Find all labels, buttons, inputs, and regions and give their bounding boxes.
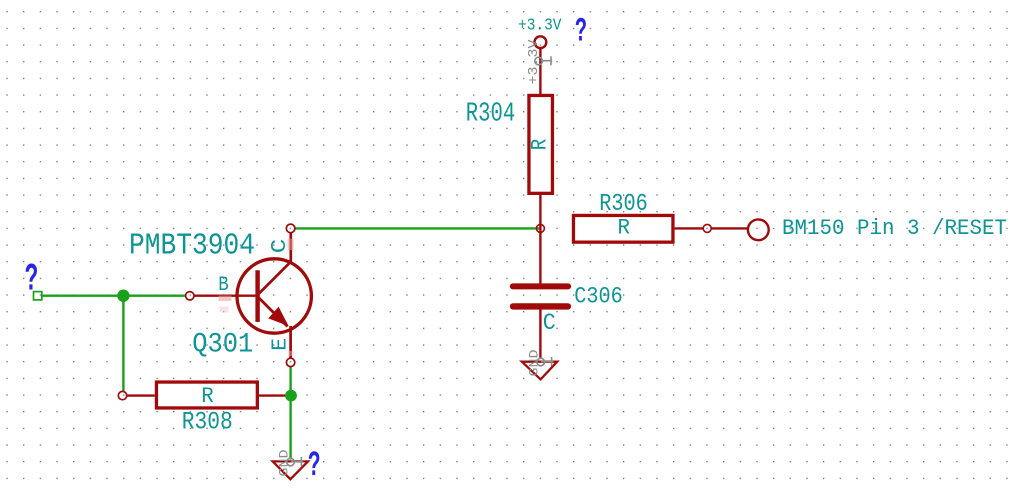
svg-text:R: R: [201, 383, 214, 409]
svg-text:+3.3V: +3.3V: [518, 17, 562, 36]
svg-text:GND: GND: [278, 450, 292, 477]
svg-text:Q301: Q301: [192, 330, 253, 361]
svg-text:C306: C306: [574, 284, 623, 311]
svg-text:?: ?: [25, 257, 39, 301]
svg-text:BM150 Pin 3 /RESET: BM150 Pin 3 /RESET: [782, 216, 1007, 241]
svg-text:R: R: [618, 214, 631, 240]
svg-text:R304: R304: [466, 98, 516, 128]
svg-text:?: ?: [308, 446, 321, 486]
svg-text:?: ?: [575, 13, 587, 52]
svg-text:C: C: [543, 310, 556, 336]
svg-text:PMBT3904: PMBT3904: [129, 229, 255, 264]
svg-text:E: E: [270, 338, 293, 351]
svg-text:R: R: [527, 139, 553, 151]
svg-text:B: B: [218, 274, 229, 297]
svg-text:R308: R308: [182, 407, 233, 436]
svg-text:GND: GND: [528, 350, 542, 377]
